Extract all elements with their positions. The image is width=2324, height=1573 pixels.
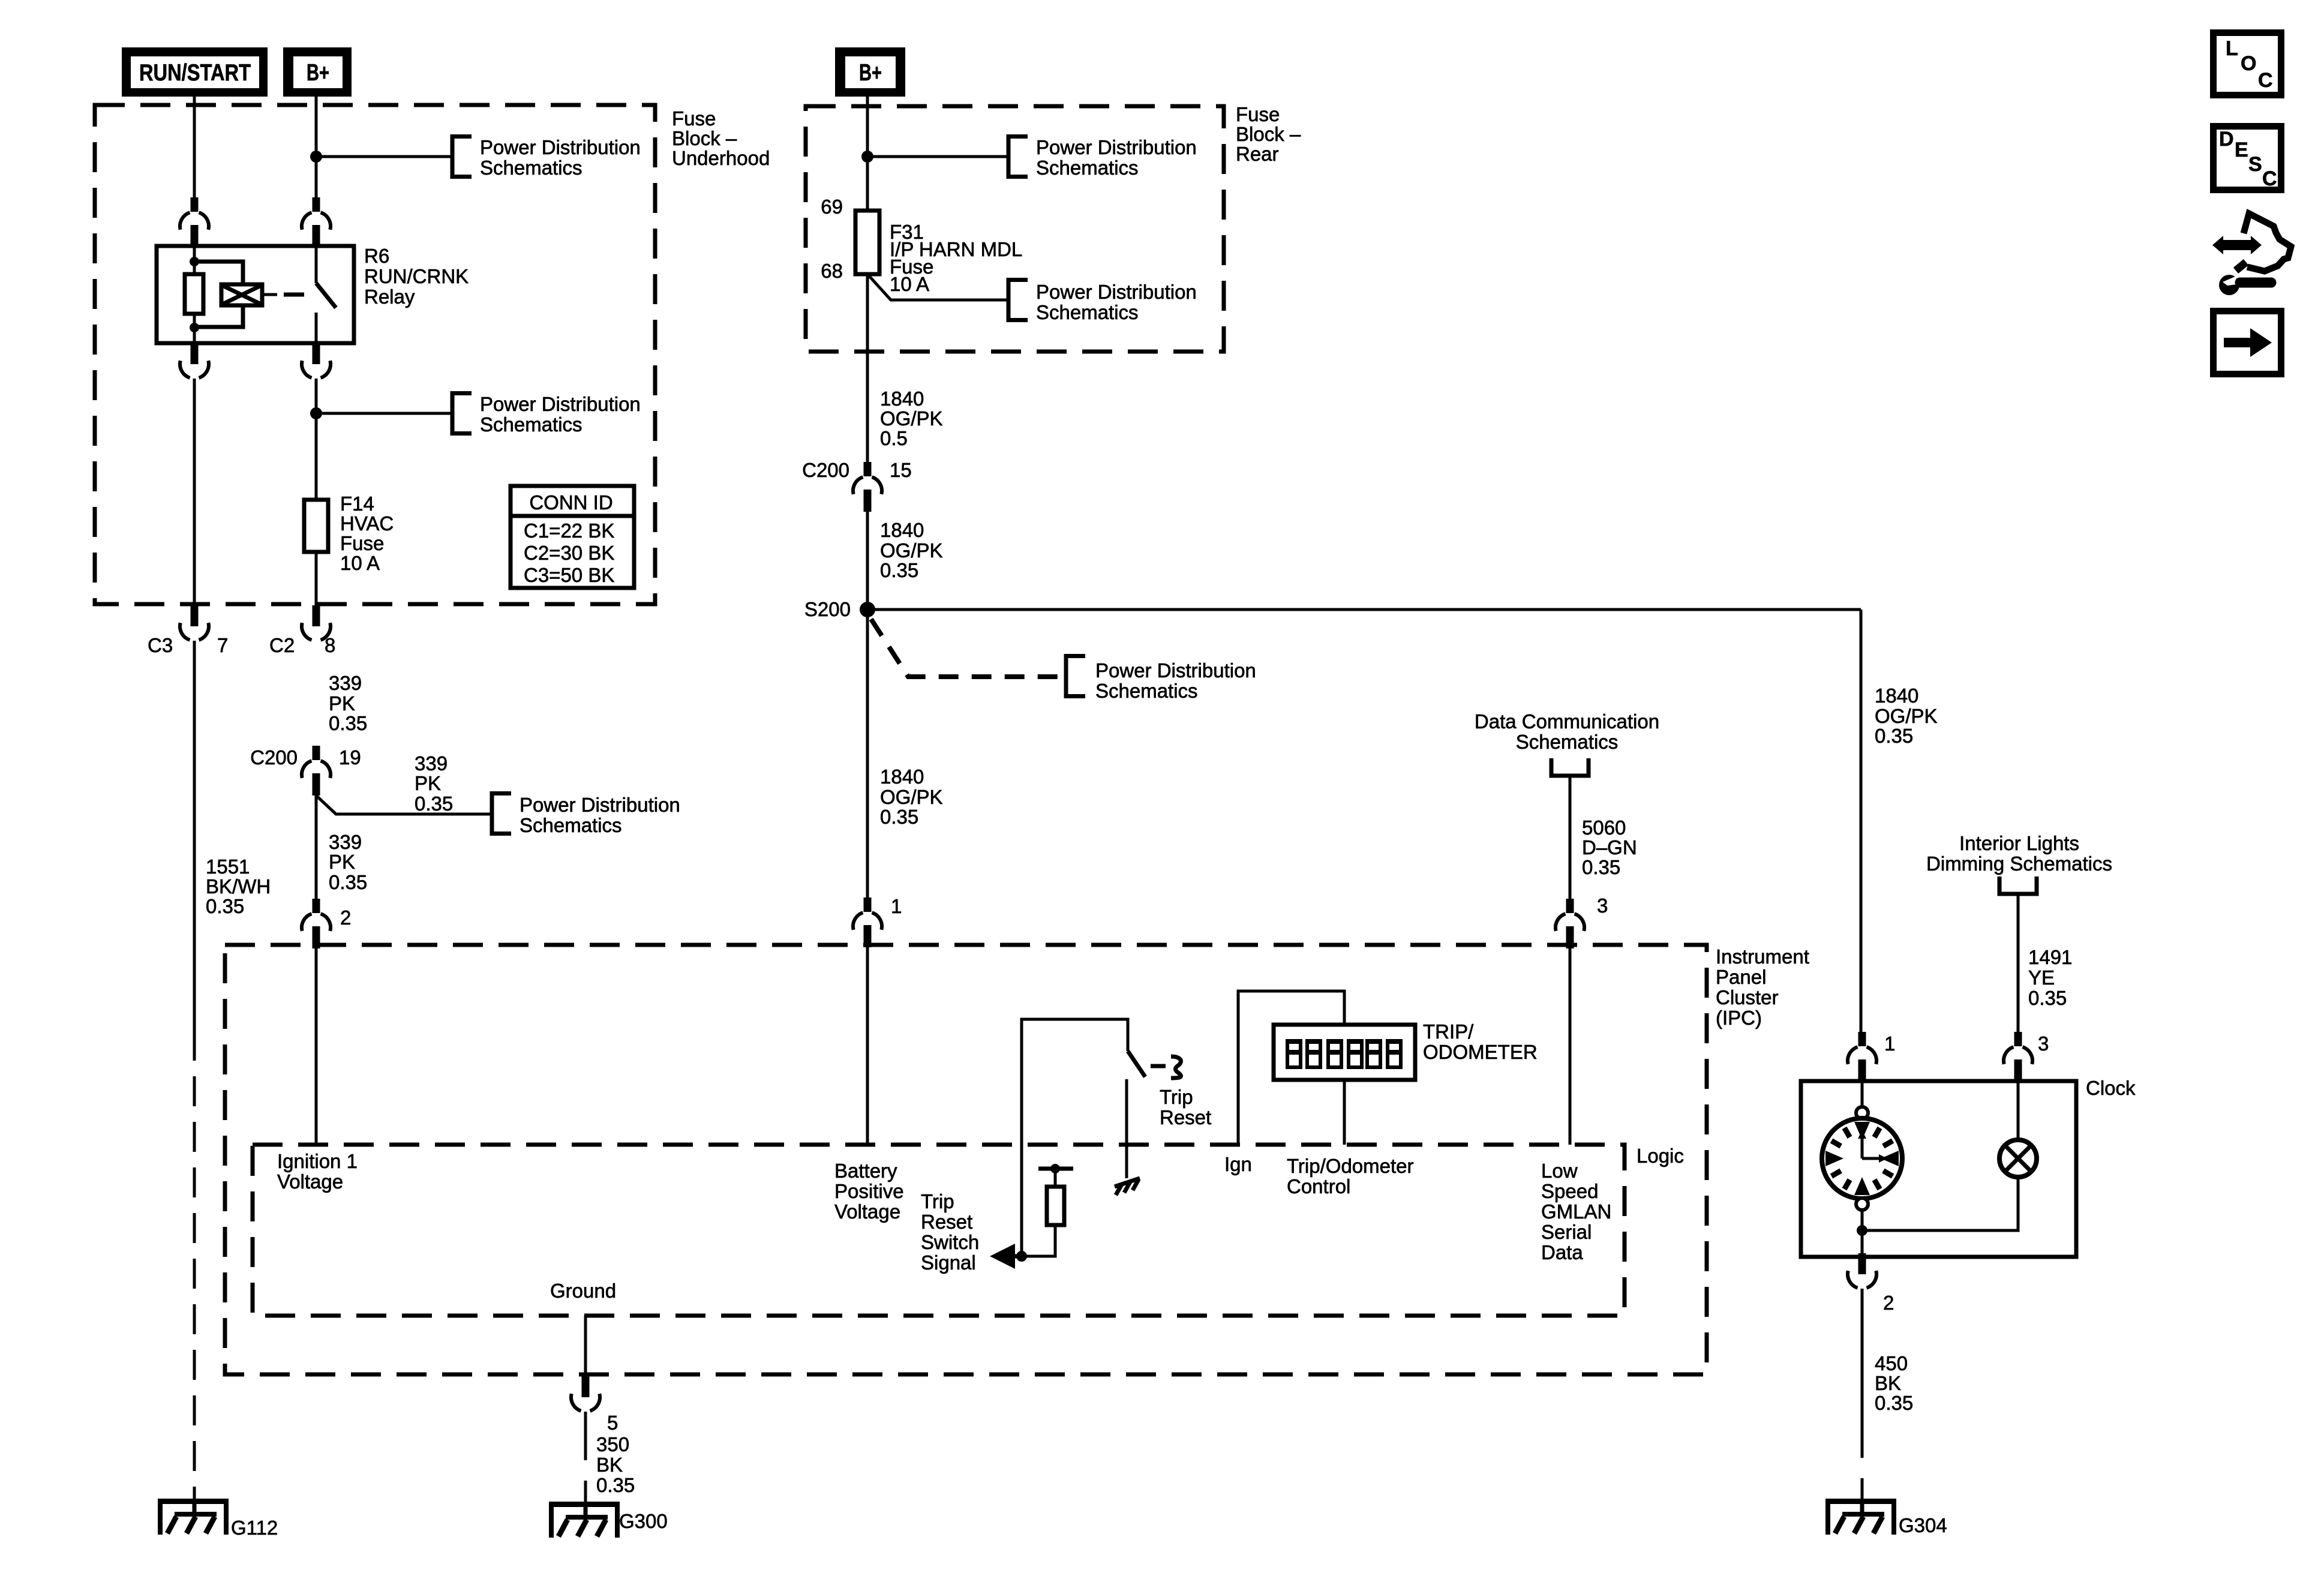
- svg-text:Schematics: Schematics: [1095, 680, 1198, 702]
- svg-text:Panel: Panel: [1716, 966, 1766, 988]
- svg-text:F14: F14: [340, 493, 374, 515]
- svg-text:0.35: 0.35: [1582, 856, 1620, 878]
- svg-text:L: L: [2226, 37, 2238, 60]
- svg-text:1: 1: [1884, 1032, 1895, 1055]
- svg-text:1840: 1840: [880, 388, 924, 410]
- svg-text:339: 339: [415, 752, 448, 775]
- svg-text:RUN/CRNK: RUN/CRNK: [364, 265, 469, 287]
- svg-text:339: 339: [329, 672, 362, 694]
- svg-text:3: 3: [2038, 1032, 2049, 1055]
- svg-text:TRIP/: TRIP/: [1423, 1020, 1474, 1043]
- svg-text:C: C: [2262, 167, 2277, 190]
- svg-text:Fuse: Fuse: [672, 107, 716, 130]
- svg-text:Fuse: Fuse: [1236, 103, 1280, 125]
- svg-text:0.35: 0.35: [1875, 725, 1913, 747]
- svg-text:BK: BK: [596, 1454, 623, 1476]
- svg-text:1840: 1840: [880, 519, 924, 541]
- svg-text:Block –: Block –: [1236, 123, 1301, 145]
- svg-text:0.35: 0.35: [880, 559, 918, 581]
- svg-text:Dimming Schematics: Dimming Schematics: [1926, 852, 2112, 875]
- svg-text:Block –: Block –: [672, 127, 737, 149]
- svg-text:D: D: [2219, 128, 2234, 151]
- svg-text:450: 450: [1875, 1352, 1908, 1374]
- svg-text:C2: C2: [269, 634, 295, 656]
- svg-text:Fuse: Fuse: [340, 532, 384, 554]
- svg-text:7: 7: [217, 634, 228, 656]
- svg-text:0.5: 0.5: [880, 427, 908, 449]
- svg-text:S200: S200: [804, 598, 851, 620]
- svg-text:C200: C200: [250, 746, 298, 769]
- svg-text:Instrument: Instrument: [1716, 945, 1809, 968]
- svg-text:E: E: [2235, 139, 2248, 161]
- svg-text:Reset: Reset: [1160, 1106, 1211, 1128]
- svg-text:Cluster: Cluster: [1716, 986, 1779, 1008]
- svg-text:2: 2: [340, 906, 351, 929]
- svg-text:Power Distribution: Power Distribution: [480, 136, 641, 158]
- svg-text:Trip: Trip: [921, 1190, 954, 1212]
- svg-text:OG/PK: OG/PK: [1875, 705, 1938, 727]
- svg-text:Ignition 1: Ignition 1: [277, 1150, 358, 1172]
- svg-text:1840: 1840: [1875, 685, 1918, 707]
- svg-text:C2=30 BK: C2=30 BK: [524, 542, 614, 564]
- svg-text:ODOMETER: ODOMETER: [1423, 1041, 1538, 1063]
- svg-text:O: O: [2241, 52, 2256, 75]
- svg-text:69: 69: [821, 196, 843, 218]
- svg-text:0.35: 0.35: [596, 1474, 635, 1496]
- svg-text:1: 1: [891, 895, 902, 917]
- svg-text:Schematics: Schematics: [480, 413, 582, 436]
- svg-text:PK: PK: [415, 772, 441, 794]
- svg-text:C3: C3: [148, 634, 173, 656]
- svg-text:BK/WH: BK/WH: [206, 875, 271, 897]
- svg-text:Speed: Speed: [1541, 1180, 1598, 1202]
- svg-text:Power Distribution: Power Distribution: [520, 794, 680, 816]
- svg-text:GMLAN: GMLAN: [1541, 1200, 1611, 1223]
- svg-text:B+: B+: [307, 60, 329, 86]
- svg-text:0.35: 0.35: [415, 792, 453, 815]
- svg-text:Power Distribution: Power Distribution: [1036, 281, 1197, 303]
- svg-text:10 A: 10 A: [890, 273, 929, 295]
- svg-text:Interior Lights: Interior Lights: [1959, 832, 2079, 854]
- svg-text:1551: 1551: [206, 855, 250, 878]
- svg-text:Logic: Logic: [1637, 1145, 1684, 1167]
- svg-text:G112: G112: [231, 1517, 278, 1539]
- svg-text:Power Distribution: Power Distribution: [1095, 659, 1256, 682]
- svg-text:Schematics: Schematics: [520, 814, 622, 836]
- svg-text:Voltage: Voltage: [277, 1170, 343, 1193]
- svg-text:Positive: Positive: [834, 1180, 904, 1202]
- svg-text:(IPC): (IPC): [1716, 1007, 1762, 1029]
- svg-text:Switch: Switch: [921, 1231, 979, 1253]
- svg-text:Battery: Battery: [834, 1160, 897, 1182]
- svg-text:0.35: 0.35: [880, 806, 918, 828]
- svg-text:C3=50 BK: C3=50 BK: [524, 564, 614, 586]
- svg-text:HVAC: HVAC: [340, 512, 394, 535]
- svg-text:Relay: Relay: [364, 286, 415, 308]
- svg-text:8: 8: [325, 634, 335, 656]
- svg-text:10 A: 10 A: [340, 552, 380, 574]
- svg-text:Data Communication: Data Communication: [1475, 710, 1659, 733]
- svg-text:RUN/START: RUN/START: [139, 60, 251, 86]
- svg-text:Data: Data: [1541, 1241, 1583, 1263]
- svg-text:3: 3: [1597, 894, 1608, 917]
- svg-text:68: 68: [821, 260, 843, 282]
- svg-text:Power Distribution: Power Distribution: [1036, 136, 1197, 158]
- svg-text:PK: PK: [329, 692, 355, 715]
- svg-text:Schematics: Schematics: [1516, 731, 1619, 753]
- svg-text:350: 350: [596, 1433, 629, 1455]
- svg-text:0.35: 0.35: [206, 895, 244, 917]
- svg-text:1491: 1491: [2028, 946, 2072, 968]
- svg-text:S: S: [2248, 153, 2262, 176]
- svg-text:C1=22 BK: C1=22 BK: [524, 520, 614, 542]
- svg-text:Signal: Signal: [921, 1251, 976, 1274]
- svg-text:0.35: 0.35: [329, 871, 367, 893]
- svg-text:Clock: Clock: [2086, 1077, 2136, 1099]
- svg-text:2: 2: [1883, 1292, 1894, 1314]
- svg-text:Power Distribution: Power Distribution: [480, 393, 641, 415]
- svg-text:0.35: 0.35: [2028, 987, 2067, 1009]
- svg-text:YE: YE: [2028, 966, 2055, 989]
- svg-text:CONN ID: CONN ID: [529, 491, 612, 514]
- svg-text:Low: Low: [1541, 1160, 1578, 1182]
- svg-text:Voltage: Voltage: [834, 1200, 900, 1223]
- svg-text:Schematics: Schematics: [1036, 157, 1139, 179]
- svg-text:D–GN: D–GN: [1582, 836, 1637, 858]
- svg-text:G300: G300: [619, 1510, 668, 1532]
- svg-text:PK: PK: [329, 851, 355, 873]
- svg-text:19: 19: [339, 746, 361, 769]
- svg-text:Serial: Serial: [1541, 1221, 1592, 1243]
- svg-text:Rear: Rear: [1236, 143, 1279, 165]
- svg-text:Reset: Reset: [921, 1211, 972, 1233]
- svg-text:5: 5: [607, 1412, 618, 1434]
- svg-text:Ground: Ground: [550, 1280, 616, 1302]
- svg-text:Underhood: Underhood: [672, 147, 770, 169]
- svg-text:C: C: [2258, 69, 2273, 92]
- svg-text:B+: B+: [859, 60, 882, 86]
- svg-text:R6: R6: [364, 245, 389, 267]
- svg-text:15: 15: [890, 459, 912, 481]
- svg-text:Control: Control: [1287, 1175, 1350, 1197]
- svg-text:5060: 5060: [1582, 816, 1626, 839]
- svg-text:0.35: 0.35: [1875, 1392, 1913, 1414]
- svg-text:Trip: Trip: [1160, 1086, 1193, 1108]
- svg-text:OG/PK: OG/PK: [880, 407, 943, 430]
- svg-text:OG/PK: OG/PK: [880, 786, 943, 808]
- svg-text:339: 339: [329, 831, 362, 853]
- svg-text:Schematics: Schematics: [1036, 301, 1139, 323]
- svg-text:C200: C200: [802, 459, 849, 481]
- svg-text:G304: G304: [1899, 1514, 1947, 1536]
- svg-text:OG/PK: OG/PK: [880, 539, 943, 562]
- svg-text:Trip/Odometer: Trip/Odometer: [1287, 1155, 1414, 1177]
- svg-text:1840: 1840: [880, 766, 924, 788]
- svg-text:Schematics: Schematics: [480, 157, 582, 179]
- svg-text:Ign: Ign: [1224, 1153, 1252, 1175]
- svg-text:BK: BK: [1875, 1372, 1901, 1394]
- svg-text:0.35: 0.35: [329, 712, 367, 734]
